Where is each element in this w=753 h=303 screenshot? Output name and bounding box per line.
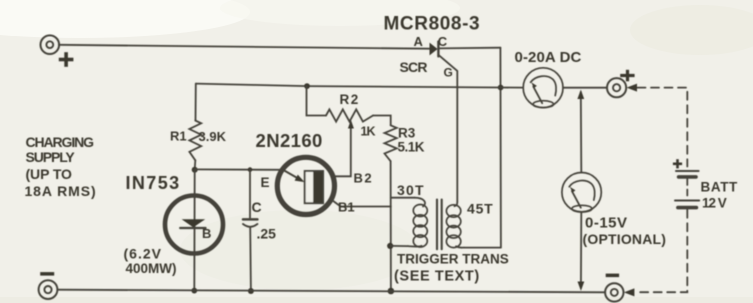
minus bar at bottom-left terminal [40, 272, 54, 276]
wire mid rail: R1 top to node K [196, 84, 501, 88]
plus sign at + output terminal [620, 70, 634, 82]
zener diode 1N753 [165, 196, 223, 254]
svg-text:(6.2V: (6.2V [124, 246, 162, 262]
svg-text:B1: B1 [338, 200, 355, 215]
wire vertical cathode bus x=500 [499, 48, 502, 248]
terminal - input (bottom-left) [39, 280, 58, 299]
svg-text:B2: B2 [354, 170, 374, 185]
node transformer-ground junction dot [388, 288, 395, 295]
svg-text:SCR: SCR [400, 59, 428, 75]
svg-text:C: C [438, 34, 448, 49]
svg-text:(UP TO: (UP TO [26, 166, 73, 182]
wire R3 bottom bus down to bottom rail [390, 161, 392, 291]
wire B2 lead to R2 wiper [334, 129, 351, 177]
node K junction dot [498, 85, 504, 91]
wire R2 right lead to R3 top [373, 116, 391, 126]
wire SCR cathode to node K (and down to trigger secondary) [438, 47, 500, 50]
svg-text:MCR808-3: MCR808-3 [384, 14, 481, 35]
svg-text:45T: 45T [467, 200, 494, 216]
svg-text:(SEE TEXT): (SEE TEXT) [394, 268, 480, 284]
svg-text:3.9K: 3.9K [199, 129, 227, 144]
node zener-ground junction dot [191, 288, 197, 294]
wire dashed battery - lead [637, 210, 687, 292]
wire emitter rail: node E to UJT emitter [195, 168, 283, 170]
svg-text:(OPTIONAL): (OPTIONAL) [583, 231, 667, 247]
svg-text:0-15V: 0-15V [585, 215, 628, 232]
terminal + input (top-left) [41, 35, 60, 54]
wire SCR gate lead [439, 55, 458, 201]
voltmeter M2 0-15V [562, 173, 601, 213]
svg-text:CHARGING: CHARGING [26, 134, 95, 150]
svg-text:30T: 30T [397, 182, 425, 198]
arrowhead into + output terminal [627, 84, 637, 92]
wire bottom rail [57, 290, 605, 293]
SCR MCR808-3 [430, 42, 439, 57]
svg-text:TRIGGER TRANS: TRIGGER TRANS [397, 252, 509, 267]
transistor Q1 2N2160 UJT [277, 157, 334, 214]
svg-text:R1: R1 [170, 129, 187, 144]
svg-text:400MW): 400MW) [126, 261, 177, 276]
transformer T1 core [437, 200, 442, 250]
svg-text:0-20A DC: 0-20A DC [515, 49, 582, 66]
minus bar at bottom-right terminal [606, 274, 619, 278]
arrowhead R2 wiper [348, 120, 354, 129]
svg-text:5.1K: 5.1K [398, 140, 425, 155]
terminal + output (top-right) [607, 78, 626, 97]
wire node E to zener and down to bottom rail [193, 170, 195, 291]
svg-text:G: G [444, 65, 453, 79]
svg-text:C: C [252, 199, 262, 215]
wire dashed battery + lead [638, 88, 688, 167]
resistor R2 1K [326, 109, 373, 121]
plus sign at battery top [673, 159, 682, 168]
transformer T1 secondary winding 45T [446, 202, 500, 248]
node C-ground junction dot [248, 288, 254, 294]
wire top rail: + input terminal to SCR anode [59, 45, 430, 49]
svg-text:12 V: 12 V [702, 196, 727, 211]
resistor R1 3.9K [189, 121, 201, 161]
svg-text:B: B [202, 226, 211, 241]
wire R1 bottom to node E [194, 160, 197, 169]
svg-text:.25: .25 [257, 226, 277, 242]
battery BATT 12V [675, 171, 699, 208]
value (6.2V 400MW) [124, 246, 177, 277]
ammeter M1 0-20A DC [523, 68, 563, 108]
arrowhead into - output terminal [624, 288, 635, 296]
resistor R3 5.1K [385, 125, 397, 161]
plus sign at + input terminal [59, 52, 74, 67]
node E junction dot [192, 167, 198, 173]
label CHARGING SUPPLY (UP TO 18A RMS) [25, 134, 97, 199]
svg-text:BATT: BATT [701, 180, 739, 195]
capacitor C .25 [243, 170, 257, 291]
transformer T1 primary winding 30T [390, 198, 427, 247]
svg-text:R2: R2 [340, 92, 360, 107]
svg-text:IN753: IN753 [126, 173, 181, 193]
svg-text:R3: R3 [398, 125, 416, 140]
svg-text:E: E [261, 175, 270, 190]
wire B1 lead to R3 bus [331, 200, 391, 207]
terminal - output (bottom-right) [605, 283, 623, 301]
svg-text:1K: 1K [361, 125, 376, 139]
wire ammeter to + output terminal [563, 87, 607, 89]
wire R2 left lead from mid-rail node [307, 86, 327, 115]
svg-text:18A RMS): 18A RMS) [25, 183, 97, 199]
wire node K to ammeter [501, 87, 524, 89]
svg-text:SUPPLY: SUPPLY [26, 149, 76, 165]
svg-text:A: A [414, 34, 424, 49]
node C-top junction dot [248, 167, 253, 172]
voltmeter stem upper with up arrow [577, 90, 584, 173]
node R2-top junction dot [304, 83, 310, 89]
voltmeter stem lower with down arrow [578, 212, 585, 291]
svg-text:2N2160: 2N2160 [256, 130, 323, 151]
wire R1 top lead [195, 84, 197, 121]
node primary-bottom junction dot [387, 243, 393, 249]
